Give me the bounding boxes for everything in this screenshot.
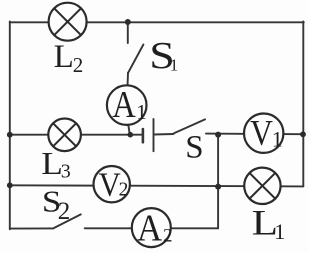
svg-text:2: 2 bbox=[73, 53, 84, 77]
svg-text:2: 2 bbox=[163, 226, 173, 247]
svg-text:V: V bbox=[99, 165, 121, 203]
svg-text:A: A bbox=[137, 207, 163, 249]
svg-text:1: 1 bbox=[272, 127, 283, 152]
svg-text:A: A bbox=[112, 83, 136, 126]
svg-text:V: V bbox=[250, 114, 273, 153]
svg-text:1: 1 bbox=[274, 219, 285, 244]
svg-text:L: L bbox=[41, 146, 63, 181]
svg-text:1: 1 bbox=[170, 56, 179, 75]
svg-text:3: 3 bbox=[61, 161, 71, 183]
svg-text:1: 1 bbox=[136, 100, 147, 124]
svg-text:2: 2 bbox=[119, 180, 129, 201]
svg-text:L: L bbox=[54, 39, 74, 75]
svg-text:S: S bbox=[185, 130, 203, 166]
svg-text:2: 2 bbox=[58, 198, 71, 225]
